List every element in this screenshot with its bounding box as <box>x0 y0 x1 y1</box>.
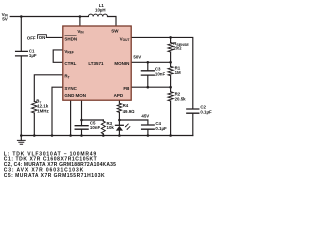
svg-text:VOUT: VOUT <box>120 36 130 42</box>
svg-text:VREF: VREF <box>64 49 73 55</box>
wire ground bus <box>21 135 193 137</box>
svg-text:10k: 10k <box>107 125 115 130</box>
svg-text:R4: R4 <box>123 103 129 108</box>
capacitor C2 <box>187 109 199 113</box>
wire SHDN <box>46 36 62 38</box>
svg-text:1µF: 1µF <box>29 53 37 58</box>
node R2 top <box>169 86 172 89</box>
capacitor C1 <box>20 17 22 52</box>
wire APD pin <box>118 100 120 103</box>
svg-text:MON: MON <box>76 93 87 98</box>
capacitor C4 <box>147 120 149 125</box>
wire R4 to APD node <box>118 112 120 120</box>
node ground bus dots <box>20 134 172 137</box>
wire 45V node to C4 <box>119 119 147 121</box>
wire RT pin to resistor <box>34 75 63 102</box>
svg-text:SYNC: SYNC <box>64 86 77 91</box>
svg-text:0.1µF: 0.1µF <box>155 126 167 131</box>
svg-text:VIN: VIN <box>77 29 84 35</box>
svg-text:GND: GND <box>64 93 75 98</box>
wire RT resistor to ground <box>33 113 35 136</box>
wire SYNC to ground <box>52 87 63 135</box>
wire MONIN line <box>131 61 170 63</box>
node MON junction <box>80 119 83 122</box>
wire VIN top rail <box>10 16 88 18</box>
svg-text:SW: SW <box>111 29 119 34</box>
svg-text:SHDN: SHDN <box>64 36 77 41</box>
capacitor C5 <box>81 120 83 126</box>
svg-text:1M: 1M <box>175 70 181 75</box>
svg-text:1MHz: 1MHz <box>37 109 49 114</box>
node VIN rail junction dots <box>20 15 23 18</box>
svg-text:49.9Ω: 49.9Ω <box>123 109 136 114</box>
svg-text:20Ω: 20Ω <box>173 45 182 50</box>
node R1 top <box>169 61 172 64</box>
svg-text:RT: RT <box>64 74 69 80</box>
svg-text:10nF: 10nF <box>90 125 101 130</box>
capacitor C3 <box>147 62 149 70</box>
OFF/ON switch symbol <box>38 35 47 39</box>
resistor R2 20.5k <box>170 87 172 92</box>
svg-text:45V: 45V <box>141 113 149 118</box>
wire FB line <box>131 86 170 88</box>
resistor R4 49.9 <box>117 103 121 112</box>
svg-text:20.5k: 20.5k <box>175 96 187 101</box>
resistor R1 1M <box>170 62 172 66</box>
svg-text:C5: MURATA X7R GRM155R71H103K: C5: MURATA X7R GRM155R71H103K <box>4 173 105 179</box>
light arrows into photodiode <box>126 124 130 129</box>
ground <box>20 136 22 141</box>
wire VOUT line <box>131 37 193 109</box>
resistor RSENSE 20 <box>170 37 172 42</box>
op-amp U1 LT3571 chip body <box>63 26 131 100</box>
svg-text:LT3571: LT3571 <box>88 61 104 66</box>
svg-text:OFF: OFF <box>27 36 36 41</box>
photodiode APD <box>118 120 120 125</box>
svg-text:MONIN: MONIN <box>114 61 129 66</box>
svg-text:10nF: 10nF <box>155 71 166 76</box>
node APD 45V junction <box>118 119 121 122</box>
inductor L1 <box>88 14 107 16</box>
wire VIN pin stub <box>79 17 81 27</box>
node C3 bottom <box>147 86 150 89</box>
wire GND pin <box>70 100 72 135</box>
svg-text:CTRL: CTRL <box>64 61 76 66</box>
svg-text:5V: 5V <box>2 17 9 22</box>
svg-text:10µH: 10µH <box>95 7 106 12</box>
svg-text:ON: ON <box>39 35 46 40</box>
svg-text:50V: 50V <box>133 55 141 60</box>
svg-text:FB: FB <box>123 86 130 91</box>
node RSENSE top <box>169 36 172 39</box>
svg-text:APD: APD <box>114 93 124 98</box>
wire L1 to SW pin <box>108 17 117 27</box>
node C3 top <box>147 61 150 64</box>
svg-text:0.1µF: 0.1µF <box>200 110 212 115</box>
wire MON to R3 <box>82 119 104 121</box>
wire VREF-CTRL link <box>53 50 63 62</box>
wire MON pin <box>81 100 83 120</box>
resistor RT 12.1k <box>32 101 38 113</box>
resistor R3 10k <box>101 121 105 134</box>
